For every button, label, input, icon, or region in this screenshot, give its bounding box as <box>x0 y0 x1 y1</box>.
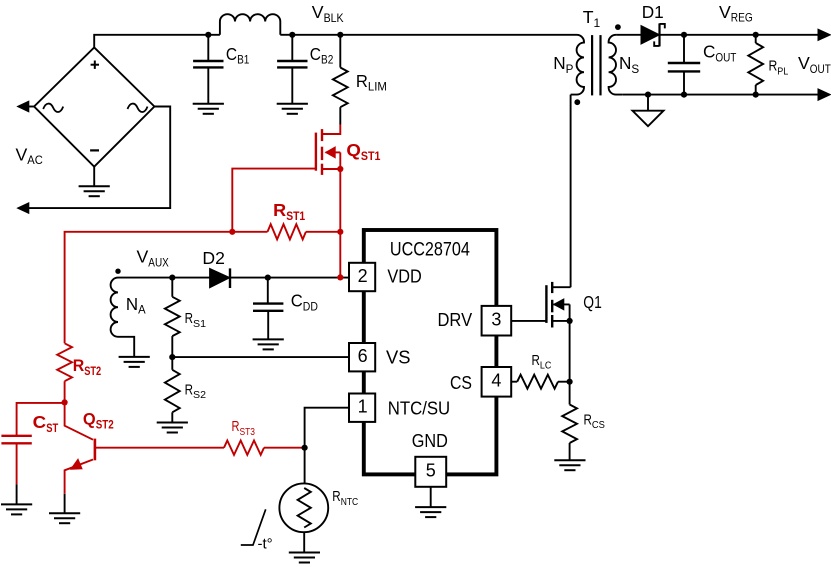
wire RST1 to RST2 (startup rail) <box>65 232 233 343</box>
svg-text:R: R <box>73 357 85 375</box>
phase dot NA winding <box>115 269 120 274</box>
node CS junction <box>567 379 573 385</box>
phase dot NS winding <box>615 24 621 30</box>
ground below RCS <box>554 459 585 461</box>
ground below RS2 <box>157 422 188 424</box>
pin 1 box <box>349 394 375 422</box>
transistor QST1 body diode arrow <box>326 151 341 153</box>
svg-text:P: P <box>566 62 574 76</box>
svg-text:A: A <box>138 305 146 317</box>
node RPL bottom <box>753 92 759 98</box>
wire bridge left vertex to arrow <box>27 106 34 108</box>
svg-text:R: R <box>185 381 194 398</box>
resistor RS2 <box>171 357 173 370</box>
bridge plus sign <box>91 64 99 66</box>
resistor RS1 <box>171 278 173 297</box>
svg-text:ST: ST <box>46 421 58 435</box>
svg-text:R: R <box>769 58 778 75</box>
node CB2 junction <box>289 32 295 38</box>
resistor RCS <box>569 382 571 405</box>
diode D2 <box>210 268 230 287</box>
svg-text:3: 3 <box>491 310 501 330</box>
wire secondary return rail <box>622 94 819 96</box>
wire NTC node to pin 1 <box>305 408 349 448</box>
svg-text:LIM: LIM <box>368 80 387 94</box>
svg-text:REG: REG <box>731 11 753 25</box>
transistor Q1 channel bar <box>551 282 553 293</box>
ground below CST <box>1 503 32 505</box>
svg-text:LC: LC <box>540 360 552 372</box>
svg-text:V: V <box>16 144 28 164</box>
thermistor RNTC <box>279 483 328 532</box>
transformer core <box>591 35 593 95</box>
svg-text:S2: S2 <box>193 389 206 401</box>
node RPL top <box>753 32 759 38</box>
AC input arrow bottom-left <box>18 203 29 214</box>
ground below pin 5 <box>415 506 446 508</box>
capacitor CB2 <box>291 35 293 61</box>
svg-text:D1: D1 <box>642 2 664 22</box>
svg-text:ST3: ST3 <box>240 426 256 438</box>
wire Q1 source to CS node <box>569 321 571 382</box>
svg-text:R: R <box>532 352 541 369</box>
node VAUX / RS1 junction <box>169 275 175 281</box>
svg-text:CS: CS <box>450 373 472 393</box>
node VS junction <box>169 354 175 360</box>
wire NS to D1 <box>616 34 641 36</box>
wire QST1 gate to RST1 node <box>232 169 316 232</box>
svg-text:V: V <box>137 247 149 267</box>
phase dot NP winding <box>574 99 580 105</box>
resistor RLC <box>511 381 517 383</box>
ground below CB1 <box>193 103 224 105</box>
ground below RNTC <box>289 552 320 554</box>
svg-text:Q: Q <box>83 411 96 429</box>
node RST1 right <box>337 229 343 235</box>
bridge rectifier diamond <box>34 47 154 166</box>
capacitor CB1 <box>207 35 209 61</box>
svg-text:ST1: ST1 <box>361 149 381 163</box>
AC input arrow top-left <box>18 101 29 112</box>
svg-text:DRV: DRV <box>438 310 473 330</box>
ground below QST2 emitter <box>49 512 80 514</box>
svg-text:4: 4 <box>491 370 501 390</box>
NTC temperature symbol -t <box>241 509 266 545</box>
transistor Q1 gate bar <box>545 285 547 323</box>
wire bridge top vertex to top rail <box>94 35 220 48</box>
transistor Q1 drain lead <box>552 286 570 288</box>
svg-text:C: C <box>226 44 237 64</box>
diode D1 (schottky) <box>641 26 660 45</box>
transistor QST1 gate bar <box>315 133 317 171</box>
pin 5 box <box>415 457 446 487</box>
secondary ground (open triangle) <box>647 95 649 111</box>
svg-text:-t°: -t° <box>258 536 273 553</box>
wire QST1 body to source <box>339 152 341 169</box>
transistor QST2 emitter arrow <box>71 459 82 469</box>
wire Q1 body to source <box>569 304 571 321</box>
transformer secondary winding NS <box>609 35 623 95</box>
svg-text:Q: Q <box>346 140 361 160</box>
svg-text:5: 5 <box>426 461 436 481</box>
wire D2 to VDD pin <box>230 277 349 279</box>
svg-text:S: S <box>631 62 639 76</box>
node QST1 source <box>337 166 343 172</box>
svg-text:DD: DD <box>303 301 318 313</box>
transistor QST2 base lead <box>96 447 224 449</box>
node Q1 source <box>567 318 573 324</box>
resistor RST2 <box>57 343 72 381</box>
capacitor COUT <box>683 35 685 63</box>
svg-text:T: T <box>583 7 594 27</box>
output arrow VOUT <box>818 89 830 100</box>
svg-text:V: V <box>719 2 731 22</box>
svg-text:AUX: AUX <box>148 255 169 269</box>
resistor RLIM <box>339 35 341 68</box>
svg-text:B2: B2 <box>321 55 333 67</box>
svg-text:R: R <box>356 71 368 91</box>
svg-text:C: C <box>310 44 321 64</box>
transistor QST2 emitter lead <box>65 460 93 494</box>
wire RNTC to ground <box>303 532 305 552</box>
transformer primary winding NP <box>571 35 584 95</box>
transistor Q1 body diode arrow <box>554 303 570 305</box>
svg-text:C: C <box>703 42 716 62</box>
node RST2 / CST / QST2 <box>62 399 68 405</box>
transistor QST1 drain lead <box>322 125 340 135</box>
pin 4 box <box>482 367 512 397</box>
wire NTC node to RNTC <box>304 448 306 484</box>
wire inductor to CB2 node <box>280 34 292 36</box>
svg-text:BLK: BLK <box>324 11 344 25</box>
svg-text:ST2: ST2 <box>96 419 114 431</box>
ground at bridge bottom <box>93 167 95 187</box>
svg-text:CS: CS <box>592 419 605 431</box>
node COUT top <box>681 32 687 38</box>
transistor QST2 base bar <box>94 439 97 461</box>
transistor QST1 channel bar <box>321 129 323 141</box>
node CB1 junction <box>205 32 211 38</box>
svg-text:GND: GND <box>412 431 448 451</box>
wire pin 3 DRV to Q1 gate <box>511 320 546 322</box>
svg-text:ST2: ST2 <box>84 366 101 378</box>
resistor RPL <box>755 35 757 43</box>
resistor RST1 <box>232 231 267 233</box>
svg-text:1: 1 <box>594 16 601 30</box>
bridge minus sign <box>90 149 99 151</box>
ground below CDD <box>253 338 284 340</box>
ground below CB2 <box>277 103 308 105</box>
svg-text:D2: D2 <box>202 248 225 268</box>
svg-text:6: 6 <box>358 346 368 366</box>
svg-text:OUT: OUT <box>715 51 736 65</box>
wire VAUX node to D2 <box>172 277 209 279</box>
wire VBLK rail to transformer <box>340 34 576 36</box>
wire VS node to pin 6 <box>172 356 349 358</box>
svg-text:R: R <box>273 200 286 220</box>
svg-text:2: 2 <box>358 266 368 286</box>
svg-text:AC: AC <box>27 153 43 167</box>
svg-text:B1: B1 <box>237 55 249 67</box>
svg-text:R: R <box>232 418 240 435</box>
op-amp U1 UCC28704 outline <box>364 230 497 474</box>
svg-text:C: C <box>291 291 303 311</box>
node NTC/SU junction <box>302 445 308 451</box>
svg-text:N: N <box>126 294 138 314</box>
node COUT bottom <box>681 92 687 98</box>
node VBLK / RLIM junction <box>337 32 343 38</box>
capacitor CDD <box>267 278 269 304</box>
pin 6 box <box>349 343 375 371</box>
svg-text:V: V <box>312 2 324 22</box>
wire pin 5 to ground <box>430 487 432 507</box>
svg-text:VS: VS <box>386 348 411 368</box>
resistor RST3 <box>224 441 264 455</box>
ground below NA <box>119 356 150 358</box>
svg-text:1: 1 <box>358 397 368 417</box>
filter inductor L1 <box>220 14 280 35</box>
node RST1 left <box>229 229 235 235</box>
svg-text:Q1: Q1 <box>583 292 602 312</box>
node CDD junction <box>265 275 271 281</box>
transistor QST2 collector lead <box>65 402 93 439</box>
svg-text:NTC/SU: NTC/SU <box>388 399 451 419</box>
wire D1 to VREG rail <box>660 34 820 36</box>
svg-text:C: C <box>33 412 47 432</box>
output arrow VREG <box>818 29 830 40</box>
wire NP bottom to Q1 drain <box>570 95 572 288</box>
svg-text:V: V <box>798 53 810 73</box>
node VDD junction <box>337 274 343 280</box>
bridge right AC tilde <box>128 104 148 112</box>
svg-text:R: R <box>332 488 341 505</box>
transistor Q1 source lead <box>552 320 569 322</box>
wire RST1 node to VDD node <box>339 232 341 278</box>
bridge left AC tilde <box>43 104 63 112</box>
svg-text:R: R <box>584 411 593 428</box>
svg-text:S1: S1 <box>193 318 206 330</box>
svg-text:N: N <box>553 53 565 73</box>
svg-text:PL: PL <box>777 65 788 77</box>
svg-text:R: R <box>185 310 194 327</box>
wire bridge right vertex to VAC return <box>28 107 171 209</box>
svg-text:UCC28704: UCC28704 <box>390 240 470 261</box>
capacitor CST <box>17 403 65 436</box>
svg-text:ST1: ST1 <box>286 209 305 223</box>
node secondary ground junction <box>645 92 651 98</box>
svg-text:NTC: NTC <box>341 496 359 508</box>
pin 3 box <box>482 306 512 336</box>
svg-text:VDD: VDD <box>387 267 421 287</box>
wire QST1 source to RST1 node <box>339 169 341 232</box>
svg-text:OUT: OUT <box>810 62 831 76</box>
transistor QST1 source lead <box>322 168 340 170</box>
svg-text:N: N <box>619 53 631 73</box>
wire CB2 node to RLIM node <box>292 34 340 36</box>
aux winding NA <box>111 278 173 357</box>
pin 2 box <box>349 263 375 291</box>
